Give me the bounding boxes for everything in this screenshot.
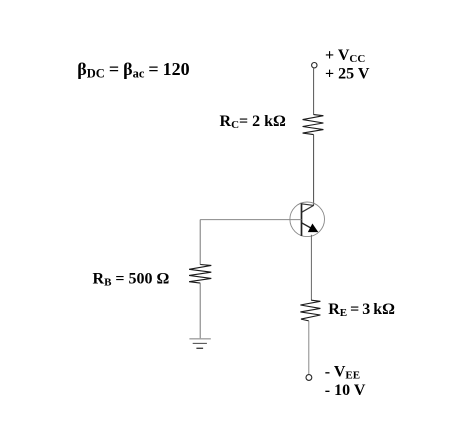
svg-text:- 10 V: - 10 V: [325, 382, 366, 399]
svg-text:+ 25 V: + 25 V: [325, 66, 370, 83]
svg-text:βDC = βac = 120: βDC = βac = 120: [77, 59, 189, 81]
svg-text:RC= 2 kΩ: RC= 2 kΩ: [220, 113, 287, 131]
resistor RE: [300, 300, 320, 321]
terminal +VCC: [312, 62, 317, 67]
wire RE to VEE: [308, 321, 310, 374]
svg-text:RE = 3 kΩ: RE = 3 kΩ: [328, 301, 395, 319]
ground: [189, 339, 210, 349]
transistor (NPN): [290, 202, 325, 237]
wire emitter to RE: [310, 235, 312, 300]
resistor RB: [189, 265, 211, 284]
svg-text:RB = 500 Ω: RB = 500 Ω: [93, 271, 170, 289]
wire base: [200, 219, 301, 221]
svg-text:+ VCC: + VCC: [325, 47, 365, 65]
wire base corner to RB: [199, 220, 201, 265]
wire RB to ground: [199, 283, 201, 339]
resistor RC: [303, 115, 324, 135]
svg-text:- VEE: - VEE: [325, 364, 360, 382]
terminal -VEE: [306, 375, 312, 381]
wire VCC to RC: [313, 68, 315, 115]
wire RC to collector: [313, 135, 315, 206]
